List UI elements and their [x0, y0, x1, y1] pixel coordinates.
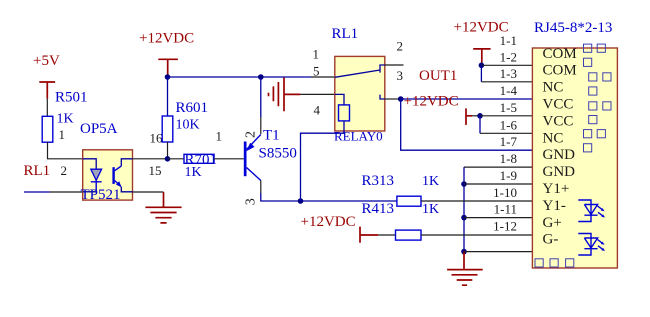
wire T1 collector down and right	[261, 193, 301, 201]
wire to pin 1-2	[481, 64, 532, 66]
connector pad squares row 7	[584, 130, 606, 138]
connector J1 RJ45-8*2-13 body	[532, 48, 617, 268]
svg-text:G-: G-	[543, 232, 559, 248]
relay RL1 body	[335, 56, 385, 131]
svg-text:+12VDC: +12VDC	[404, 94, 459, 110]
svg-text:1-3: 1-3	[500, 66, 517, 81]
svg-text:1-4: 1-4	[500, 83, 518, 98]
svg-text:COM: COM	[543, 46, 577, 62]
svg-text:1-6: 1-6	[500, 117, 518, 132]
connector pad square row 4	[589, 87, 597, 95]
power +12VDC bar at 1-5	[466, 108, 478, 125]
svg-text:T1: T1	[263, 128, 280, 144]
svg-text:R413: R413	[362, 201, 395, 217]
svg-text:S8550: S8550	[259, 146, 297, 162]
node junction at 1-2	[479, 63, 485, 69]
wire R601 top	[167, 77, 169, 116]
wire to shield pins	[464, 251, 532, 253]
power +12VDC bar at R413	[360, 227, 396, 243]
svg-text:G+: G+	[543, 215, 562, 231]
node junction at 1-9	[461, 181, 467, 187]
connector pad squares row 3	[589, 73, 611, 81]
svg-text:R601: R601	[176, 100, 209, 116]
svg-text:1K: 1K	[185, 165, 202, 180]
connector pad square row 8	[584, 144, 592, 152]
svg-text:1-8: 1-8	[500, 151, 517, 166]
wire OUT1 to connector pin 1-4	[401, 98, 533, 100]
svg-text:1-5: 1-5	[500, 100, 517, 115]
svg-text:RL1: RL1	[332, 26, 359, 42]
wire 1-2 down to 1-3	[481, 65, 532, 82]
svg-text:NC: NC	[543, 80, 564, 96]
svg-text:1-10: 1-10	[493, 185, 517, 200]
svg-text:1: 1	[313, 47, 320, 62]
svg-text:+12VDC: +12VDC	[139, 31, 194, 47]
relay coil	[301, 94, 350, 201]
LED D1 (Y1- to G+)	[578, 200, 605, 222]
relay contact pin 3	[380, 95, 398, 99]
connector pad square row 6	[589, 116, 597, 124]
node junction at T1 emitter top	[258, 74, 264, 80]
svg-text:1: 1	[59, 127, 66, 142]
power +12VDC bar at 1-2	[473, 49, 490, 63]
wire junction to R701	[168, 158, 185, 160]
wire collector junction to R313	[301, 200, 397, 202]
wire R601 bottom	[167, 142, 169, 159]
svg-text:3: 3	[244, 198, 259, 205]
wire R413 to pin 1-12	[421, 234, 532, 236]
svg-text:1K: 1K	[422, 202, 439, 217]
svg-text:RL1: RL1	[24, 163, 51, 179]
svg-text:+12VDC: +12VDC	[301, 214, 356, 230]
svg-text:R313: R313	[362, 173, 395, 189]
wire ground bus (GND vertical)	[464, 167, 532, 252]
wire R313 to pin 1-10	[421, 200, 532, 202]
connector pad square row 2	[584, 58, 592, 66]
svg-text:VCC: VCC	[543, 97, 574, 113]
opto LED diode	[83, 159, 102, 192]
ground (below GND bus)	[447, 252, 483, 286]
svg-text:GND: GND	[543, 147, 576, 163]
wire RL1 to optocoupler pin2	[24, 191, 83, 193]
resistor R413	[396, 230, 422, 240]
node junction at R601 top	[165, 74, 171, 80]
node junction at opto/R601/R701	[165, 156, 171, 162]
svg-text:1-2: 1-2	[500, 49, 517, 64]
svg-text:1: 1	[216, 129, 223, 144]
node junction at shield row	[461, 249, 467, 255]
svg-text:+5V: +5V	[33, 53, 60, 69]
svg-text:R501: R501	[55, 90, 88, 106]
node junction at relay pin3 / OUT1	[398, 96, 404, 102]
svg-text:2: 2	[61, 163, 68, 178]
ground (rotated, at relay pin 4)	[269, 78, 301, 112]
wire R701 to T1 base	[214, 158, 244, 160]
wire to pin 1-9	[464, 183, 532, 185]
svg-text:5: 5	[313, 64, 320, 79]
svg-text:2: 2	[244, 131, 259, 138]
svg-text:VCC: VCC	[543, 113, 574, 129]
resistor R501	[42, 116, 53, 142]
power +12VDC bar symbol (middle)	[158, 59, 178, 75]
ground (near optocoupler)	[145, 192, 181, 223]
wire opto collector to R601 junction	[133, 158, 168, 160]
relay contact pin 2	[380, 65, 404, 73]
LED D2 (G- to shield)	[578, 234, 605, 256]
svg-text:NC: NC	[543, 130, 564, 146]
svg-text:TP521: TP521	[81, 187, 121, 203]
svg-text:1K: 1K	[57, 112, 74, 127]
wire R501 bottom to optocoupler pin1	[48, 142, 83, 159]
relay switch blade	[335, 70, 380, 77]
svg-text:4: 4	[314, 103, 321, 118]
svg-text:Y1+: Y1+	[543, 181, 570, 197]
opto phototransistor	[112, 159, 132, 192]
svg-text:1-12: 1-12	[493, 219, 517, 234]
resistor R313	[397, 196, 421, 206]
svg-text:16: 16	[150, 131, 164, 146]
svg-text:1-11: 1-11	[494, 202, 517, 217]
svg-text:OUT1: OUT1	[419, 68, 457, 84]
wire 1-5 down to 1-6	[480, 116, 532, 134]
power +5V bar symbol	[39, 82, 55, 116]
node junction at 1-5	[477, 113, 483, 119]
svg-text:10K: 10K	[176, 118, 200, 133]
svg-text:2: 2	[397, 39, 404, 54]
node junction at 1-11	[461, 215, 467, 221]
connector pad squares row 1	[584, 44, 606, 52]
svg-text:OP5A: OP5A	[80, 121, 118, 137]
wire to pin 1-5	[480, 115, 532, 117]
wire OUT1 junction down to 1-7	[401, 99, 533, 150]
svg-text:Y1-: Y1-	[543, 198, 566, 214]
connector pad squares row 5	[589, 102, 611, 110]
transistor Q T1 S8550	[244, 77, 261, 193]
node junction collector/coil/R313	[298, 198, 304, 204]
svg-text:15: 15	[149, 163, 162, 178]
wire to pin 1-11	[464, 217, 532, 219]
svg-text:GND: GND	[543, 164, 576, 180]
svg-text:RJ45-8*2-13: RJ45-8*2-13	[534, 20, 612, 36]
resistor R601	[162, 116, 173, 142]
svg-text:RELAY0: RELAY0	[334, 129, 383, 144]
wire opto emitter to ground	[133, 191, 164, 193]
svg-text:COM: COM	[543, 63, 577, 79]
wire +12VDC rail to relay	[168, 76, 335, 78]
svg-text:3: 3	[397, 68, 404, 83]
svg-text:1-9: 1-9	[500, 168, 517, 183]
svg-text:1K: 1K	[422, 174, 439, 189]
svg-text:1-1: 1-1	[500, 33, 517, 48]
optocoupler U OP5A body	[83, 150, 133, 200]
svg-text:1-7: 1-7	[500, 134, 518, 149]
resistor R701	[184, 154, 214, 163]
wire ground to relay pin 4	[300, 93, 334, 95]
connector shield squares bottom	[535, 259, 574, 267]
